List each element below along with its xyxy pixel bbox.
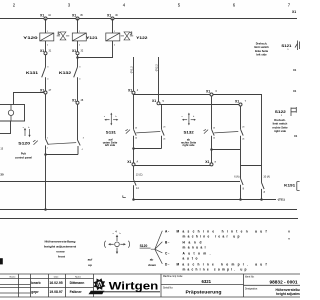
svg-text:46: 46 — [115, 14, 118, 17]
svg-text:X1: X1 — [293, 89, 297, 93]
wire lamp box to X1 col1 — [14, 93, 45, 105]
switch S132 pole2 — [241, 106, 245, 166]
svg-text:4: 4 — [79, 79, 81, 81]
wire col1 contact to terminal — [45, 77, 47, 91]
svg-text:D -: D - — [165, 263, 169, 267]
wire col3 bus to coil — [112, 19, 114, 34]
svg-text:2: 2 — [13, 3, 16, 8]
svg-text:A: A — [137, 161, 139, 164]
svg-text:6: 6 — [233, 3, 236, 8]
svg-text:S120: S120 — [18, 141, 30, 145]
svg-text:K191: K191 — [284, 184, 295, 188]
wire K191 top connector — [241, 165, 262, 167]
wire col2 bus to coil — [77, 19, 79, 34]
label S122 — [275, 110, 286, 117]
svg-text:X1: X1 — [40, 88, 44, 92]
svg-text:right side: right side — [182, 143, 195, 147]
lamp unit box — [0, 105, 25, 122]
contact K132 — [59, 67, 81, 81]
label table headers — [10, 276, 82, 279]
svg-text:6 (A): 6 (A) — [234, 176, 239, 179]
node X1 terminal mid-left — [128, 88, 139, 94]
svg-text:5: 5 — [163, 100, 165, 103]
title block verticals left table — [19, 274, 94, 297]
svg-text:24: 24 — [242, 139, 244, 141]
svg-text:1: 1 — [114, 31, 116, 33]
wire stub right with rotated label — [154, 57, 158, 102]
svg-text:2: 2 — [47, 148, 48, 150]
wire rail y218 — [0, 218, 298, 220]
contact K191 left — [241, 166, 245, 200]
svg-text:23: 23 — [242, 127, 244, 129]
label designation — [245, 288, 305, 297]
wire S132 bottom connector — [212, 149, 241, 151]
svg-text:S120: S120 — [140, 244, 148, 248]
title block row lines — [0, 279, 94, 288]
label contact refs above K191 — [234, 176, 270, 179]
label legend row C — [165, 252, 211, 261]
svg-text:Maschine kompl. auf: Maschine kompl. auf — [177, 263, 268, 267]
title block sub row lines — [0, 285, 31, 294]
logo Wirtgen gear — [93, 278, 105, 290]
svg-text:-5Y1.2: -5Y1.2 — [129, 66, 133, 74]
label legend row A — [165, 230, 267, 239]
svg-text:Ident No:: Ident No: — [245, 275, 255, 278]
svg-text:manual: manual — [183, 245, 206, 249]
svg-text:linke Seite: linke Seite — [255, 49, 269, 53]
svg-text:X1: X1 — [293, 68, 297, 72]
svg-text:1: 1 — [47, 138, 48, 140]
svg-text:B -: B - — [165, 241, 169, 245]
node X1 terminal on bus x45.5 — [40, 13, 51, 20]
svg-text:S132: S132 — [184, 131, 194, 135]
wire col3 coil down and across to col2 — [78, 41, 113, 58]
connector box lower — [0, 121, 11, 134]
svg-text:b: b — [28, 127, 29, 129]
svg-text:Höhenverstellung: Höhenverstellung — [45, 240, 76, 244]
svg-text:Y121: Y121 — [86, 36, 97, 40]
svg-text:b: b — [116, 116, 117, 118]
title block right divider line — [244, 284, 301, 286]
wire stub left with rotated label — [129, 57, 133, 91]
svg-text:3: 3 — [47, 67, 49, 69]
label Drehsch left caption — [254, 41, 269, 56]
svg-text:X1: X1 — [72, 49, 76, 53]
wire col1 down to rail — [45, 155, 47, 210]
svg-text:vorne: vorne — [56, 249, 65, 253]
svg-text:Autom.: Autom. — [183, 252, 211, 256]
wire rail y209 — [0, 209, 297, 211]
svg-text:m: m — [288, 238, 290, 241]
logo swoosh — [89, 291, 161, 294]
svg-text:K131: K131 — [26, 71, 38, 75]
svg-text:X1: X1 — [205, 160, 209, 164]
svg-text:X1: X1 — [152, 99, 156, 103]
svg-text:9: 9 — [281, 115, 283, 117]
switch S120 actuator notch — [33, 140, 38, 145]
coil Y122 — [106, 31, 148, 47]
svg-text:45: 45 — [80, 14, 83, 17]
svg-text:Falkner: Falkner — [70, 290, 83, 294]
contact below left terminal — [134, 166, 140, 200]
fold mark left edge — [0, 258, 3, 264]
svg-text:S122: S122 — [275, 110, 286, 114]
lamp H1 — [8, 105, 13, 122]
svg-text:Date: Date — [54, 276, 59, 279]
svg-text:Y122: Y122 — [136, 36, 147, 40]
label machine grp code — [163, 275, 212, 284]
title block divider right — [243, 274, 245, 297]
svg-text:8: 8 — [264, 191, 266, 194]
svg-text:6: 6 — [216, 90, 218, 93]
wire col2 coil to terminal — [77, 41, 79, 52]
wire col2 contact down — [77, 77, 79, 101]
svg-text:right side: right side — [274, 129, 287, 133]
wire rail y182 — [0, 181, 240, 183]
label S131 caption — [103, 138, 118, 148]
title block mid divider line — [161, 284, 244, 286]
svg-text:23: 23 — [163, 127, 165, 129]
svg-text:left side: left side — [256, 53, 267, 57]
svg-text:b: b — [120, 233, 121, 235]
svg-text:3: 3 — [79, 67, 81, 69]
node X1 terminal on run at S132 — [206, 90, 217, 97]
svg-text:4: 4 — [47, 79, 49, 81]
junction col2 merge — [76, 56, 79, 59]
svg-text:X1: X1 — [40, 49, 44, 53]
contact K191 right — [262, 166, 266, 200]
wire horizontal run y94.5 — [134, 95, 262, 166]
wire terminal link y165.5 — [135, 165, 210, 167]
svg-text:a: a — [182, 116, 184, 118]
title block divider logo right — [160, 274, 162, 297]
svg-text:14: 14 — [136, 187, 139, 190]
svg-text:limit switch: limit switch — [273, 122, 288, 126]
title block outer top line — [0, 273, 300, 275]
svg-text:X1: X1 — [107, 13, 111, 17]
svg-text:Hand: Hand — [183, 241, 202, 245]
label wire tick zu — [123, 195, 126, 197]
node X1 terminal col1 at lamp wire — [40, 88, 52, 94]
arrow icon S132 — [182, 113, 196, 126]
svg-text:2: 2 — [114, 45, 116, 47]
svg-text:13 (C): 13 (C) — [136, 174, 143, 177]
junction K191 right on rail — [260, 198, 263, 201]
label S120 legend ref — [140, 244, 151, 248]
node X1 terminal mid second line left — [152, 99, 164, 105]
svg-text:1: 1 — [47, 31, 49, 33]
wire col1 bus to coil — [45, 19, 47, 34]
svg-text:4: 4 — [82, 149, 83, 151]
wire rail y199 — [134, 199, 277, 201]
svg-text:30: 30 — [0, 172, 4, 176]
svg-text:19.08.97: 19.08.97 — [49, 290, 62, 294]
label Hoehenverstellung block — [44, 240, 76, 259]
node X1 terminal run2 right end — [235, 100, 247, 107]
svg-text:X1: X1 — [128, 88, 132, 92]
label legend edge fragments — [288, 231, 290, 241]
svg-text:3: 3 — [83, 138, 84, 140]
label K191 with bracket — [284, 182, 299, 191]
wire S120 bottom connector — [46, 154, 79, 156]
svg-text:W: W — [97, 283, 102, 289]
svg-text:7: 7 — [245, 100, 247, 103]
svg-text:44: 44 — [48, 14, 51, 17]
svg-text:b: b — [193, 116, 194, 118]
node X1 terminal lower-right mid — [205, 160, 216, 166]
node X1 terminal col1 mid — [40, 49, 52, 55]
svg-text:down: down — [148, 263, 156, 267]
label S121 — [281, 44, 291, 51]
junction on rail199 — [132, 198, 135, 201]
svg-text:Wirtgen: Wirtgen — [109, 281, 159, 293]
svg-text:Name: Name — [10, 277, 17, 279]
svg-text:auf: auf — [88, 257, 94, 261]
svg-text:rechte Seite: rechte Seite — [272, 125, 288, 129]
svg-text:a: a — [215, 161, 217, 164]
svg-text:a: a — [104, 116, 106, 118]
switch S131 pole2 — [162, 105, 166, 149]
svg-text:X1: X1 — [40, 13, 44, 17]
wire col1 coil to terminal — [45, 41, 47, 52]
wire col2 terminal to contact — [77, 55, 79, 67]
coil Y120 — [23, 31, 54, 47]
junction S120 output — [44, 153, 47, 156]
svg-text:ab: ab — [150, 257, 154, 261]
svg-text:Y120: Y120 — [23, 36, 38, 40]
svg-text:31: 31 — [49, 50, 52, 53]
svg-text:2: 2 — [79, 45, 81, 47]
label Drehsch right caption — [272, 118, 288, 133]
junction S132 output — [210, 148, 213, 151]
svg-text:height adjustment: height adjustment — [276, 292, 300, 296]
coil Y121 — [72, 31, 97, 47]
svg-text:up: up — [88, 263, 92, 267]
svg-text:X1: X1 — [127, 160, 131, 164]
svg-text:7: 7 — [288, 3, 291, 8]
svg-text:Präpsteuerung: Präpsteuerung — [186, 290, 222, 295]
contact K131 — [26, 67, 49, 81]
joystick compass icon — [104, 233, 129, 254]
svg-text:X1: X1 — [72, 99, 76, 103]
svg-text:X1: X1 — [292, 10, 296, 14]
wire horizontal run y104.5 — [160, 104, 239, 106]
arrow icon S131 — [104, 113, 118, 126]
svg-text:front: front — [58, 254, 65, 258]
svg-text:X1: X1 — [235, 100, 239, 104]
svg-text:left side: left side — [105, 143, 116, 147]
node X1 terminal lower-left mid — [127, 160, 138, 166]
svg-text:limit switch: limit switch — [254, 45, 269, 49]
svg-text:K132: K132 — [59, 71, 71, 75]
wire main supply bus — [0, 18, 297, 20]
svg-text:Designation:: Designation: — [245, 288, 258, 291]
svg-text:13: 13 — [135, 128, 137, 130]
label control panel caption — [15, 152, 32, 160]
svg-text:15: 15 — [0, 148, 3, 151]
node X1 terminal on bus x112.5 — [107, 13, 118, 20]
svg-text:height adjustment: height adjustment — [44, 245, 76, 249]
svg-text:bearb: bearb — [31, 281, 40, 285]
switch S120 coupling bar — [48, 143, 76, 145]
legend fan lines — [151, 231, 163, 264]
switch S131 coupling bar — [136, 132, 160, 133]
svg-text:auto: auto — [183, 256, 198, 260]
svg-text:Serial No:: Serial No: — [163, 287, 173, 290]
arrow icon up-down panel — [23, 127, 31, 137]
node X1 terminal on bus x77.5 — [72, 13, 83, 20]
node X1 terminal col2 lower — [72, 99, 84, 105]
label ident no — [245, 275, 298, 285]
svg-text:6321: 6321 — [202, 279, 212, 284]
wire col1 terminal to contact — [45, 55, 47, 67]
svg-text:machine compl. up: machine compl. up — [183, 267, 247, 271]
label auf ab up down — [88, 257, 156, 267]
svg-text:14: 14 — [135, 138, 137, 140]
wire S132 to terminal — [211, 150, 213, 163]
svg-text:gepr: gepr — [31, 290, 39, 294]
switch S120 pole2 — [78, 104, 84, 154]
svg-text:A -: A - — [165, 230, 169, 234]
valve symbol 2 — [121, 32, 134, 40]
svg-text:-5Y2.2: -5Y2.2 — [154, 64, 158, 72]
svg-text:control panel: control panel — [15, 155, 32, 159]
wire S131 bottom connector — [134, 148, 162, 150]
svg-text:2: 2 — [47, 45, 49, 47]
svg-text:10 (A): 10 (A) — [263, 176, 270, 179]
svg-text:48: 48 — [81, 99, 84, 102]
label serial no — [163, 287, 222, 295]
svg-text:8: 8 — [243, 188, 245, 191]
switch S132 actuator notch — [204, 129, 209, 133]
svg-text:Dittmann: Dittmann — [70, 281, 85, 285]
svg-text:Drehsch.: Drehsch. — [256, 41, 268, 45]
wire S131 to terminal — [133, 149, 135, 163]
label row gepr — [31, 290, 82, 294]
svg-text:32: 32 — [81, 50, 84, 53]
valve symbol 1 — [57, 32, 70, 40]
svg-text:machine rear up: machine rear up — [183, 234, 240, 238]
svg-text:24: 24 — [163, 139, 165, 141]
junction col1 on rail — [44, 208, 47, 211]
svg-text:Name: Name — [75, 277, 82, 279]
switch S131 pole1 — [106, 95, 137, 149]
svg-text:C -: C - — [165, 252, 169, 256]
svg-text:X1: X1 — [72, 13, 76, 17]
svg-text:S121: S121 — [281, 44, 291, 48]
label row bearb — [31, 281, 84, 285]
svg-text:X1: X1 — [294, 134, 298, 138]
svg-text:Maschine hinten auf: Maschine hinten auf — [177, 230, 268, 234]
label S132 caption — [181, 138, 197, 148]
junction K191 left on rail — [239, 198, 242, 201]
svg-text:4: 4 — [137, 89, 139, 92]
label legend row B — [165, 241, 206, 250]
node X1 terminal col2 mid — [72, 49, 84, 55]
switch S131 actuator notch — [125, 129, 130, 133]
svg-text:47: 47 — [49, 89, 52, 92]
svg-text:9: 9 — [287, 49, 289, 51]
junction S131 output — [132, 147, 135, 150]
svg-text:-(751): -(751) — [277, 198, 285, 202]
svg-text:4: 4 — [123, 3, 126, 8]
svg-text:14: 14 — [213, 138, 215, 140]
svg-text:16.02.95: 16.02.95 — [49, 281, 62, 285]
switch S132 pole1 — [184, 96, 216, 150]
switch S132 coupling bar — [214, 132, 238, 133]
label legend row D — [165, 263, 267, 272]
svg-text:S131: S131 — [106, 131, 116, 135]
svg-text:5: 5 — [178, 3, 181, 8]
svg-text:98832 - 0001: 98832 - 0001 — [270, 279, 298, 285]
switch S122 fragment — [291, 107, 296, 116]
svg-text:1: 1 — [79, 31, 81, 33]
svg-text:Drehsch.: Drehsch. — [274, 118, 286, 122]
title block bottom line — [0, 296, 300, 298]
svg-text:X1: X1 — [206, 90, 210, 94]
switch S121 fragment at edge — [295, 41, 300, 51]
switch S120 pole1 — [18, 94, 48, 155]
svg-text:M: M — [288, 231, 290, 234]
svg-text:Machine Grp Code:: Machine Grp Code: — [163, 275, 183, 278]
svg-text:3: 3 — [68, 3, 71, 8]
svg-text:4: 4 — [115, 230, 117, 234]
svg-text:Pult: Pult — [21, 152, 26, 156]
svg-text:13: 13 — [213, 128, 215, 130]
